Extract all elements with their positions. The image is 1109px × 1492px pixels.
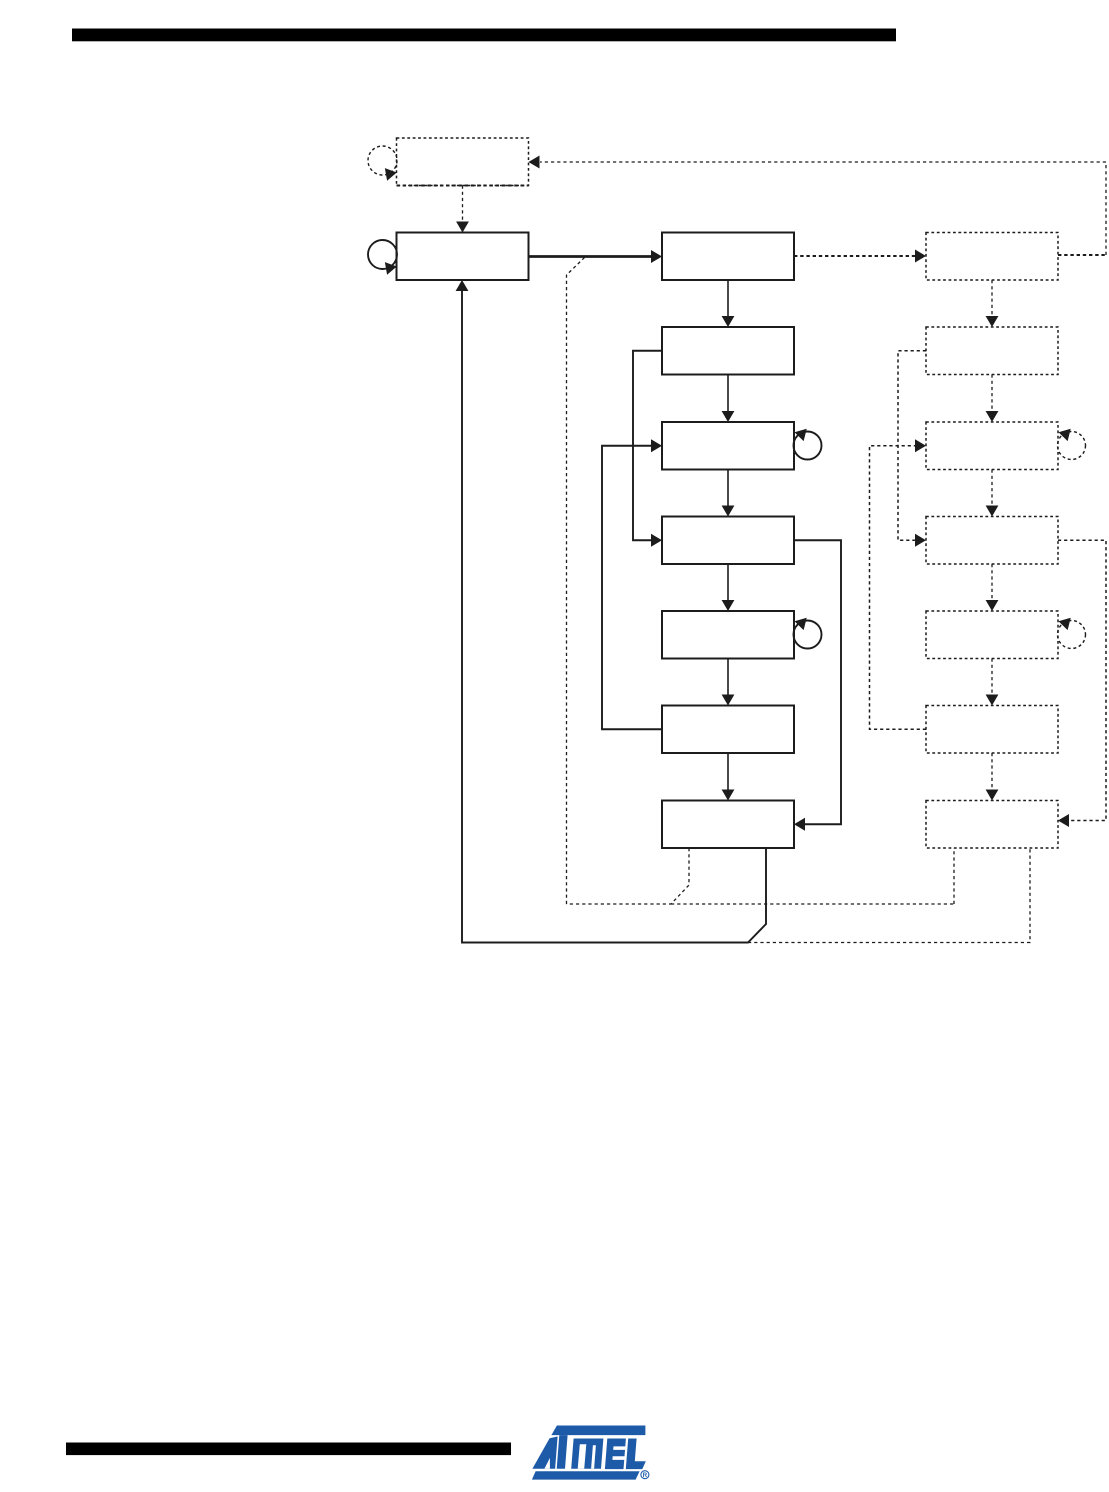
svg-text:R: R: [643, 1473, 648, 1479]
Atmel logo letter T stem: [557, 1435, 568, 1469]
state box B2 (left, solid): [397, 233, 529, 281]
wire M6 down to M7 (solid): [727, 659, 729, 697]
self-loop arrowhead into B1 left edge: [385, 166, 398, 181]
Atmel logo letter L: [626, 1439, 646, 1470]
arrowhead into R5 top: [986, 506, 999, 517]
wire M5 down to M6 (solid): [727, 564, 729, 602]
state box M4 (middle column, solid): [662, 422, 794, 470]
arrowhead into M4 left edge: [651, 439, 662, 452]
wire M2 to R2 (dashed): [794, 255, 916, 257]
wire R7 left to R4 (dashed loop): [870, 446, 927, 730]
wire M3 left to M5 (solid loop): [633, 351, 662, 541]
arrowhead into R4 left edge: [915, 439, 926, 452]
arrowhead into R8 top: [986, 790, 999, 801]
Atmel logo registered mark circle: [641, 1471, 649, 1479]
state box R8 (right column, dashed): [926, 801, 1058, 849]
state box R7 (right column, dashed): [926, 706, 1058, 754]
state box B1 bottom edge (bold dashes): [397, 185, 529, 187]
wire R5 right to R8 (dashed loop): [1058, 540, 1106, 820]
Atmel logo top bar: [551, 1426, 645, 1436]
arrowhead into R8 right edge: [1058, 814, 1069, 827]
wire bottom dashed run to R8 (y=942): [748, 848, 1030, 943]
arrowhead into R4 top: [986, 411, 999, 422]
wire R2 down to R3 (dashed): [991, 280, 993, 318]
arrowhead into B2 top: [456, 222, 469, 233]
self-loop on B1 (dashed circle): [368, 146, 397, 175]
state box M5 (middle column, solid): [662, 517, 794, 565]
wire rail to B1 (long dashed): [540, 161, 1106, 163]
wire dashed rail right segment: [671, 903, 954, 905]
state box M6 (middle column, solid): [662, 611, 794, 659]
Atmel logo letter M slot 1 (white): [578, 1444, 587, 1469]
state box M7 (middle column, solid): [662, 706, 794, 754]
arrowhead into M3 top: [722, 316, 735, 327]
footer rule bar: [66, 1443, 511, 1456]
wire M7 left to M4 (solid loop): [602, 446, 662, 730]
state box M8 (middle column, solid): [662, 801, 794, 849]
self-loop on M6 (solid circle): [794, 621, 822, 649]
wire R7 down to R8 (dashed): [991, 753, 993, 791]
wire R5 down to R6 (dashed): [991, 564, 993, 602]
self-loop arrowhead into B2 left edge: [385, 260, 398, 275]
Atmel logo letter M slot 2 (white): [591, 1445, 596, 1469]
self-loop on R4 (dashed circle): [1058, 432, 1086, 460]
Atmel logo letter E: [605, 1439, 626, 1470]
state box R2 (right top, dashed): [926, 233, 1058, 281]
arrowhead into B2 bottom: [456, 280, 469, 291]
wire R3 down to R4 (dashed): [991, 375, 993, 413]
arrowhead into R2 left edge: [915, 250, 926, 263]
Atmel logo letter E notch 2 (white): [612, 1456, 625, 1460]
state box R6 (right column, dashed): [926, 611, 1058, 659]
wire M8 bottom solid return to B2: [462, 290, 766, 943]
wire M4 down to M5 (solid): [727, 470, 729, 508]
arrowhead into M6 top: [722, 600, 735, 611]
self-loop on R6 (dashed circle): [1058, 621, 1086, 649]
self-loop arrowhead into R6 right edge: [1057, 615, 1071, 630]
arrowhead into B1 right edge: [529, 156, 540, 169]
Atmel logo letter A counter (white): [544, 1458, 550, 1469]
arrowhead into M8 top: [722, 790, 735, 801]
wire B2 to M2 (thick solid): [529, 255, 653, 258]
state box B1 (top, dashed): [397, 138, 529, 186]
Atmel logo letter M: [571, 1439, 603, 1469]
wire R8 bottom to dashed rail: [953, 848, 955, 904]
self-loop on B2 (solid circle): [368, 240, 397, 269]
wire right rail up (dashed): [1105, 162, 1107, 255]
wire M3 down to M4 (solid): [727, 375, 729, 413]
wire R2 right to rail (dashed): [1058, 254, 1106, 256]
arrowhead into R7 top: [986, 695, 999, 706]
Atmel logo letter A: [532, 1437, 557, 1469]
arrowhead into M7 top: [722, 695, 735, 706]
wire dashed rail left segment up to junction: [567, 257, 586, 904]
wire M7 down to M8 (solid): [727, 753, 729, 791]
arrowhead into R5 left edge: [915, 534, 926, 547]
arrowhead into M8 right edge: [794, 818, 805, 831]
arrowhead into M4 top: [722, 411, 735, 422]
Atmel logo bottom bar: [532, 1471, 640, 1479]
state box R5 (right column, dashed): [926, 517, 1058, 565]
state box R3 (right column, dashed): [926, 327, 1058, 375]
header rule bar: [72, 29, 896, 42]
wire M2 down to M3 (solid): [727, 280, 729, 318]
arrowhead into M2 left edge: [651, 250, 662, 263]
state box M3 (middle column, solid): [662, 327, 794, 375]
Atmel logo letter E notch 1 (white): [613, 1446, 626, 1450]
arrowhead into R6 top: [986, 600, 999, 611]
wire R6 down to R7 (dashed): [991, 659, 993, 697]
self-loop arrowhead into R4 right edge: [1057, 426, 1071, 441]
wire B1 to B2 (dashed vertical): [462, 186, 464, 224]
self-loop on M4 (solid circle): [794, 432, 822, 460]
self-loop arrowhead into M4 right edge: [793, 426, 807, 441]
wire dashed return rail (M8/R8 to transition junction): [567, 848, 690, 904]
self-loop arrowhead into M6 right edge: [793, 615, 807, 630]
state box M2 (middle top, solid): [662, 233, 794, 281]
wire M5 right to M8 (solid loop): [794, 540, 841, 824]
state box R4 (right column, dashed): [926, 422, 1058, 470]
arrowhead into M5 left edge: [651, 534, 662, 547]
wire R4 down to R5 (dashed): [991, 470, 993, 508]
arrowhead into R3 top: [986, 316, 999, 327]
wire R3 left to R5 (dashed loop): [898, 351, 926, 541]
arrowhead into M5 top: [722, 506, 735, 517]
